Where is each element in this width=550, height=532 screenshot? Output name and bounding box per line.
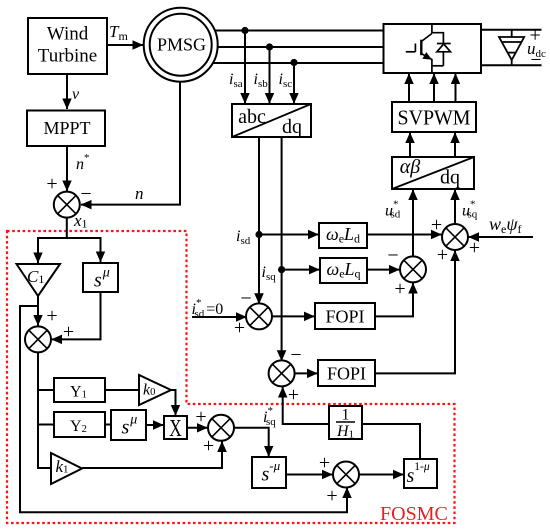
svg-text:x1: x1 bbox=[73, 211, 88, 231]
svg-text:FOPI: FOPI bbox=[325, 307, 364, 327]
svg-text:+: + bbox=[234, 317, 245, 339]
svg-text:+: + bbox=[394, 278, 405, 300]
svg-text:Turbine: Turbine bbox=[38, 46, 97, 67]
svg-text:αβ: αβ bbox=[400, 156, 420, 178]
svg-text:+: + bbox=[319, 452, 330, 474]
svg-text:+: + bbox=[63, 321, 74, 343]
svg-text:1: 1 bbox=[342, 407, 350, 424]
svg-text:dq: dq bbox=[440, 167, 460, 189]
svg-text:weψf: weψf bbox=[489, 214, 522, 236]
svg-text:i*sd=0: i*sd=0 bbox=[192, 297, 224, 320]
svg-text:dq: dq bbox=[282, 116, 302, 138]
svg-text:+: + bbox=[288, 384, 299, 406]
svg-text:−: − bbox=[290, 344, 301, 366]
svg-text:+: + bbox=[46, 173, 57, 195]
svg-text:FOSMC: FOSMC bbox=[380, 503, 448, 525]
svg-text:u*sq: u*sq bbox=[462, 199, 478, 221]
svg-text:+: + bbox=[469, 237, 480, 259]
svg-text:X: X bbox=[169, 416, 182, 442]
svg-text:FOPI: FOPI bbox=[327, 364, 366, 384]
svg-text:n: n bbox=[135, 184, 144, 203]
svg-text:+: + bbox=[326, 485, 337, 507]
svg-text:PMSG: PMSG bbox=[157, 35, 206, 55]
svg-text:u*sd: u*sd bbox=[385, 199, 401, 221]
svg-text:Wind: Wind bbox=[47, 24, 89, 45]
svg-text:−: − bbox=[240, 288, 251, 310]
svg-text:+: + bbox=[46, 305, 57, 327]
svg-text:+: + bbox=[437, 244, 448, 266]
svg-text:−: − bbox=[530, 49, 541, 71]
svg-text:n*: n* bbox=[76, 152, 90, 173]
svg-text:isc: isc bbox=[279, 71, 293, 90]
svg-text:isb: isb bbox=[254, 71, 269, 90]
svg-text:+: + bbox=[203, 435, 214, 457]
svg-text:v: v bbox=[72, 86, 80, 103]
svg-text:isq: isq bbox=[262, 264, 277, 283]
svg-text:isd: isd bbox=[236, 228, 251, 247]
svg-text:+: + bbox=[431, 214, 442, 236]
svg-text:abc: abc bbox=[238, 106, 266, 128]
svg-text:SVPWM: SVPWM bbox=[398, 106, 471, 130]
svg-text:−: − bbox=[80, 183, 91, 205]
svg-text:MPPT: MPPT bbox=[43, 118, 90, 138]
svg-text:+: + bbox=[530, 25, 541, 47]
svg-text:Tm: Tm bbox=[109, 22, 128, 43]
svg-text:i*sq: i*sq bbox=[263, 405, 276, 428]
svg-text:+: + bbox=[195, 406, 206, 428]
svg-text:−: − bbox=[387, 245, 398, 267]
svg-text:isa: isa bbox=[229, 71, 243, 90]
